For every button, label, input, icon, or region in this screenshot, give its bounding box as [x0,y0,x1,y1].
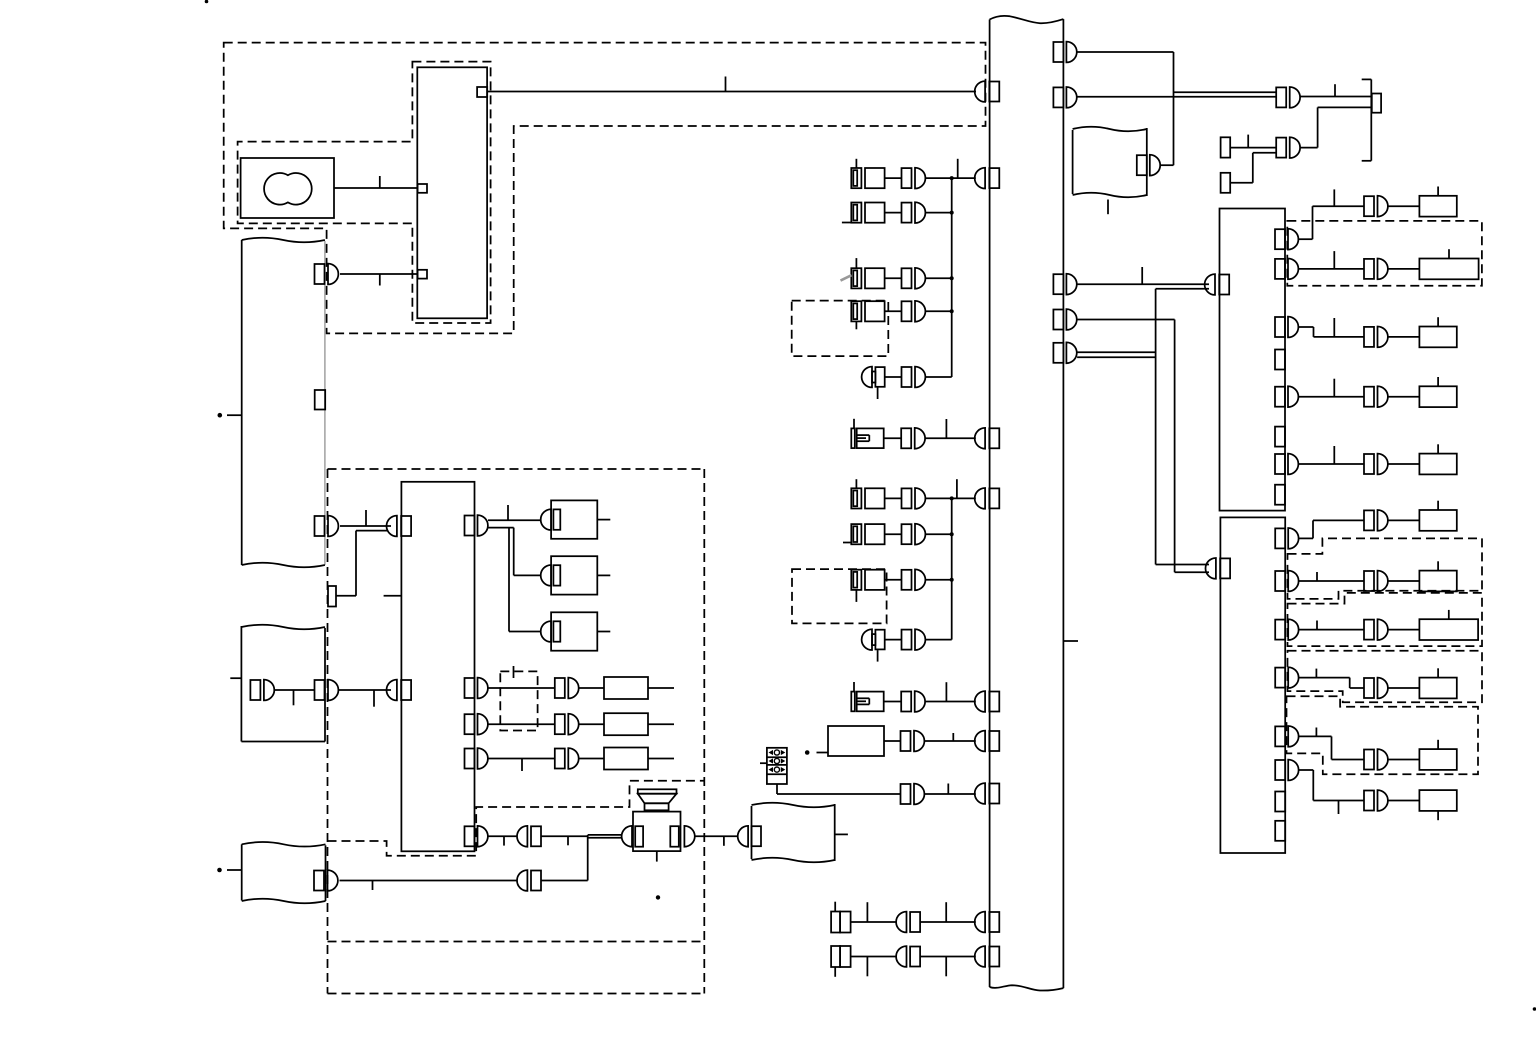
dashed option box D-B1 [1288,538,1483,599]
wire C-b to TR2 [1230,153,1276,183]
wire lower feed to speaker line [541,835,588,881]
splice tick on W1-R1 wire [379,274,381,286]
sensor chain row A [831,902,976,933]
fuse chain F4 row [851,301,951,329]
speaker left connector [622,826,632,847]
wire C1 to L1 [488,519,541,521]
tick below W5 [1107,200,1109,215]
wire s5 stair [1299,728,1364,760]
main harness bus V1 left edge [989,20,991,988]
stub on bus V1 right edge [1063,640,1078,642]
B2 spare pin r6 [1275,427,1285,447]
node dot below speaker area [656,895,660,899]
fuse chain F5 row [851,479,951,509]
R2 right connector C2 [465,678,488,699]
off-page harness W4 torn bottom [242,899,326,904]
off-page harness W1 torn top [242,238,325,243]
wire relay to pair [884,740,901,742]
stub on R2 left edge [384,595,402,597]
bus V1 left connector pin J2 [975,168,1000,189]
switch chain S2 row [851,682,976,712]
B3 right connector s4 [1275,667,1298,688]
wire s2 [1299,572,1364,581]
wire C5 pair to junction [541,836,588,845]
off-page harness W4 left edge [241,844,243,900]
load row r2 [1364,249,1479,279]
ground chain G1 row [862,367,952,399]
wire W2 to R2 row2 [338,690,391,707]
junction block R1 body [417,67,487,318]
wire pair to R2 row1 [340,510,391,526]
dashed option box BB [1287,221,1482,286]
off-page harness W1 left edge [241,240,243,565]
lamp L3 [541,612,611,650]
off-page harness W5 torn top [1073,127,1147,132]
dashed option box around fuse F4 [792,301,889,357]
splice tick above C1 wire [507,505,509,520]
bus V1 torn bottom edge [990,985,1064,990]
load row s6 [1364,790,1457,820]
connector pair after relay [901,731,925,752]
bus B2 left connector [1205,274,1230,295]
fuse chain F1 row [851,159,951,189]
wire TR2 to bracket [1300,107,1372,147]
dashed option box around fuse F7 [792,569,887,623]
B2 spare pin r4 [1275,350,1285,370]
main harness bus V1 right edge [1062,19,1064,988]
wire terminal block to pair [777,784,901,794]
ground chain G2 row [862,629,952,661]
fuse chain F6 row [843,524,952,545]
antenna bracket [1362,79,1381,160]
W5 right connector [1137,155,1160,176]
B2 right connector r1 [1275,229,1298,250]
off-page harness W2 torn top [241,625,325,630]
vertical link wire x1155 [1156,289,1209,565]
relay box bus B3 body [1220,517,1285,853]
wire lower feed [340,881,518,891]
twisted pair to speaker [588,835,622,838]
wire relay pair to bus [924,733,975,741]
speaker SP1 body [633,812,681,852]
wire r3 stair [1299,318,1365,337]
fuse chain F2 row [842,202,952,223]
junction dots group 1 [950,176,954,313]
bus V1 right connector pin K3 [1053,274,1076,295]
capacitor C-a [1221,137,1231,157]
B3 spare pin s7 [1275,792,1285,812]
lamp L1 [541,500,611,538]
load row s3 [1364,610,1478,640]
off-page harness W1 right edge [324,241,326,565]
B2 right connector r5 [1275,386,1298,407]
wire s1 stair [1299,520,1364,538]
stub left of W2 [230,677,241,679]
R1 pin tab left (motor feed) [418,184,427,193]
R2 left connector row 1 [386,516,411,537]
off-page harness W1 torn bottom [242,563,325,568]
connector pair on W2 right edge [315,680,339,701]
wire V1-K5 pair upper [1077,351,1156,353]
terminal block TB1 [767,748,787,784]
connector pair TR2 [1276,137,1300,158]
wire tab to R2 [336,531,388,596]
B3 right connector s6 [1275,760,1298,781]
wire V1-K4 to B3 [1077,320,1209,573]
wire W1 connector to R1 lower pin [340,273,418,275]
off-page harness W4 right edge [325,845,327,901]
R2 right connector C4 [465,748,488,769]
bus V1 left connector pin J6 [975,731,1000,752]
lever stub on F3 [841,275,852,280]
splice tick on motor wire [379,176,381,188]
motor M1 winding symbol [264,173,312,205]
trunk wire fuse group 2 [951,498,953,639]
load row s4 [1364,668,1457,698]
control unit R2 body [401,482,474,852]
wire group2 trunk to bus [952,479,976,498]
dashed enclosure around junction block and motor [238,62,491,323]
twisted feed to connector TR1 [1077,92,1276,97]
B2 right connector r2 [1275,259,1298,280]
wire r2 [1299,251,1365,269]
relay box bus B2 body [1220,209,1286,511]
capacitor C-b [1221,173,1231,193]
bus V1 right connector pin K1 [1053,42,1076,63]
connector pair lower feed [517,870,541,891]
wire r7 [1299,446,1365,464]
wire C1 branch down [488,528,541,632]
R2 right connector C3 [465,714,488,735]
off-page harness W2 right edge [324,628,326,742]
connector pair on T4 edge row1 [315,516,339,537]
W3 connector [738,826,761,847]
fuse chain F3 row [851,258,951,289]
off-page harness W2 flat bottom [241,741,325,743]
B3 right connector s5 [1275,726,1298,747]
bus V1 left connector pin J5 [975,691,1000,712]
bus V1 left connector pin J9 [975,946,1000,967]
spare terminal tab on W1 edge [315,390,326,410]
wire W5 to vertical [1160,164,1173,166]
connector pair on W4 right edge [314,870,338,891]
node dot at W1 left [218,413,242,418]
wire r5 [1299,379,1365,397]
node dot before relay [805,750,828,755]
connector pair on W1 right edge [315,264,339,285]
load row s5 [1364,740,1457,770]
wire C5 to pair [488,836,517,845]
tick below speaker [656,851,658,862]
dashed option box D-B4 [1287,696,1479,774]
connector pair after terminal block [901,784,925,805]
B2 spare pin r8 [1275,485,1285,505]
wire r1 stair [1299,189,1365,239]
off-page harness W3 torn bottom [752,858,835,863]
fuse chain F7 row [851,569,951,602]
speaker right connector [684,826,694,847]
wire s6 stair [1299,770,1364,814]
registration dot top-left [205,0,209,3]
load row r7 [1364,444,1457,474]
R2 left connector row 2 [386,680,411,701]
wire group1 trunk to bus [952,159,976,178]
off-page harness W3 torn top [752,803,835,808]
load row s1 [1364,501,1457,531]
wire inside W2 [274,690,314,705]
door load row C2 [488,666,674,699]
wire s3 [1299,621,1364,630]
bus V1 right connector pin K2 [1053,87,1076,108]
B2 right connector r3 [1275,317,1298,338]
dashed enclosure T4 (door area) outline [328,469,705,994]
R1 pin tab left lower [418,270,427,279]
stub left of terminal block [760,762,767,764]
load row r5 [1364,377,1457,407]
tab on T4 dashed edge [328,586,336,607]
dashed enclosure (engine compartment) outline [224,43,986,334]
sensor chain row B [831,946,976,977]
off-page harness W2 left edge [240,626,242,742]
off-page harness W5 torn bottom [1073,193,1147,198]
lamp L2 [541,556,611,594]
stub right of W3 [835,833,848,835]
bus V1 left connector pin J4 [975,488,1000,509]
dashed option box D-B3 [1288,651,1483,703]
off-page harness W3 right edge [834,804,836,861]
wire R1 top pin to bus V1 (long feed) [487,91,976,93]
load row r3 [1364,317,1457,347]
B3 spare pin s8 [1275,821,1285,841]
speaker SP1 horn [638,789,677,810]
dashed option box D6 [500,671,537,730]
wire s4 stair [1299,669,1364,688]
R1 pin tab upper-right [477,87,487,97]
wire tb pair to bus [924,784,975,795]
off-page harness W5 left edge [1072,130,1074,194]
bus V1 left connector pin J1 [975,81,1000,102]
switch chain S1 row [851,419,976,449]
wire V1-K3 to B2 [1077,267,1209,284]
wire speaker to W3 [695,836,738,846]
bus V1 right connector pin K5 [1053,342,1076,363]
wire bus K1 to vertical [1077,52,1173,165]
R2 right connector C5 [465,826,488,847]
bus V1 right connector pin K4 [1053,309,1076,330]
splice tick on long feed wire [725,77,727,92]
connector pair inside W2 [250,680,274,701]
junction dots group 2 [950,496,954,581]
load row r1 [1364,187,1457,217]
B3 right connector s3 [1275,619,1298,640]
wire V1-K5 pair lower [1077,356,1156,358]
trunk wire fuse group 1 [951,178,953,377]
motor M1 body [241,158,334,218]
B3 right connector s1 [1275,528,1298,549]
bus V1 torn top edge [990,16,1064,23]
dashed inner partition around speaker [328,781,705,856]
off-page harness W4 torn top [242,842,326,847]
door load row C4 [488,748,674,772]
B3 right connector s2 [1275,571,1298,592]
door load row C3 [488,713,674,735]
wire TR1 to antenna bracket [1300,84,1371,96]
relay K3 body [828,726,884,756]
bus V1 left connector pin J7 [975,783,1000,804]
connector pair row C5 [517,826,541,847]
connector pair TR1 [1276,87,1300,108]
R2 right connector C1 [465,515,488,536]
node dot at W4 left [217,868,242,873]
bus B3 left connector [1206,558,1231,579]
wire motor M1 to R1 [334,187,418,189]
bus V1 left connector pin J8 [975,912,1000,933]
load row s2 [1364,561,1457,591]
B2 right connector r7 [1275,454,1298,475]
bus V1 left connector pin J3 [975,428,1000,449]
off-page harness W5 right edge [1146,128,1148,196]
dashed option box D-B2 [1288,593,1483,646]
off-page harness W3 left edge [751,806,753,859]
wire C-a to TR2 [1230,135,1276,148]
registration dot bottom-right [1533,1007,1536,1011]
